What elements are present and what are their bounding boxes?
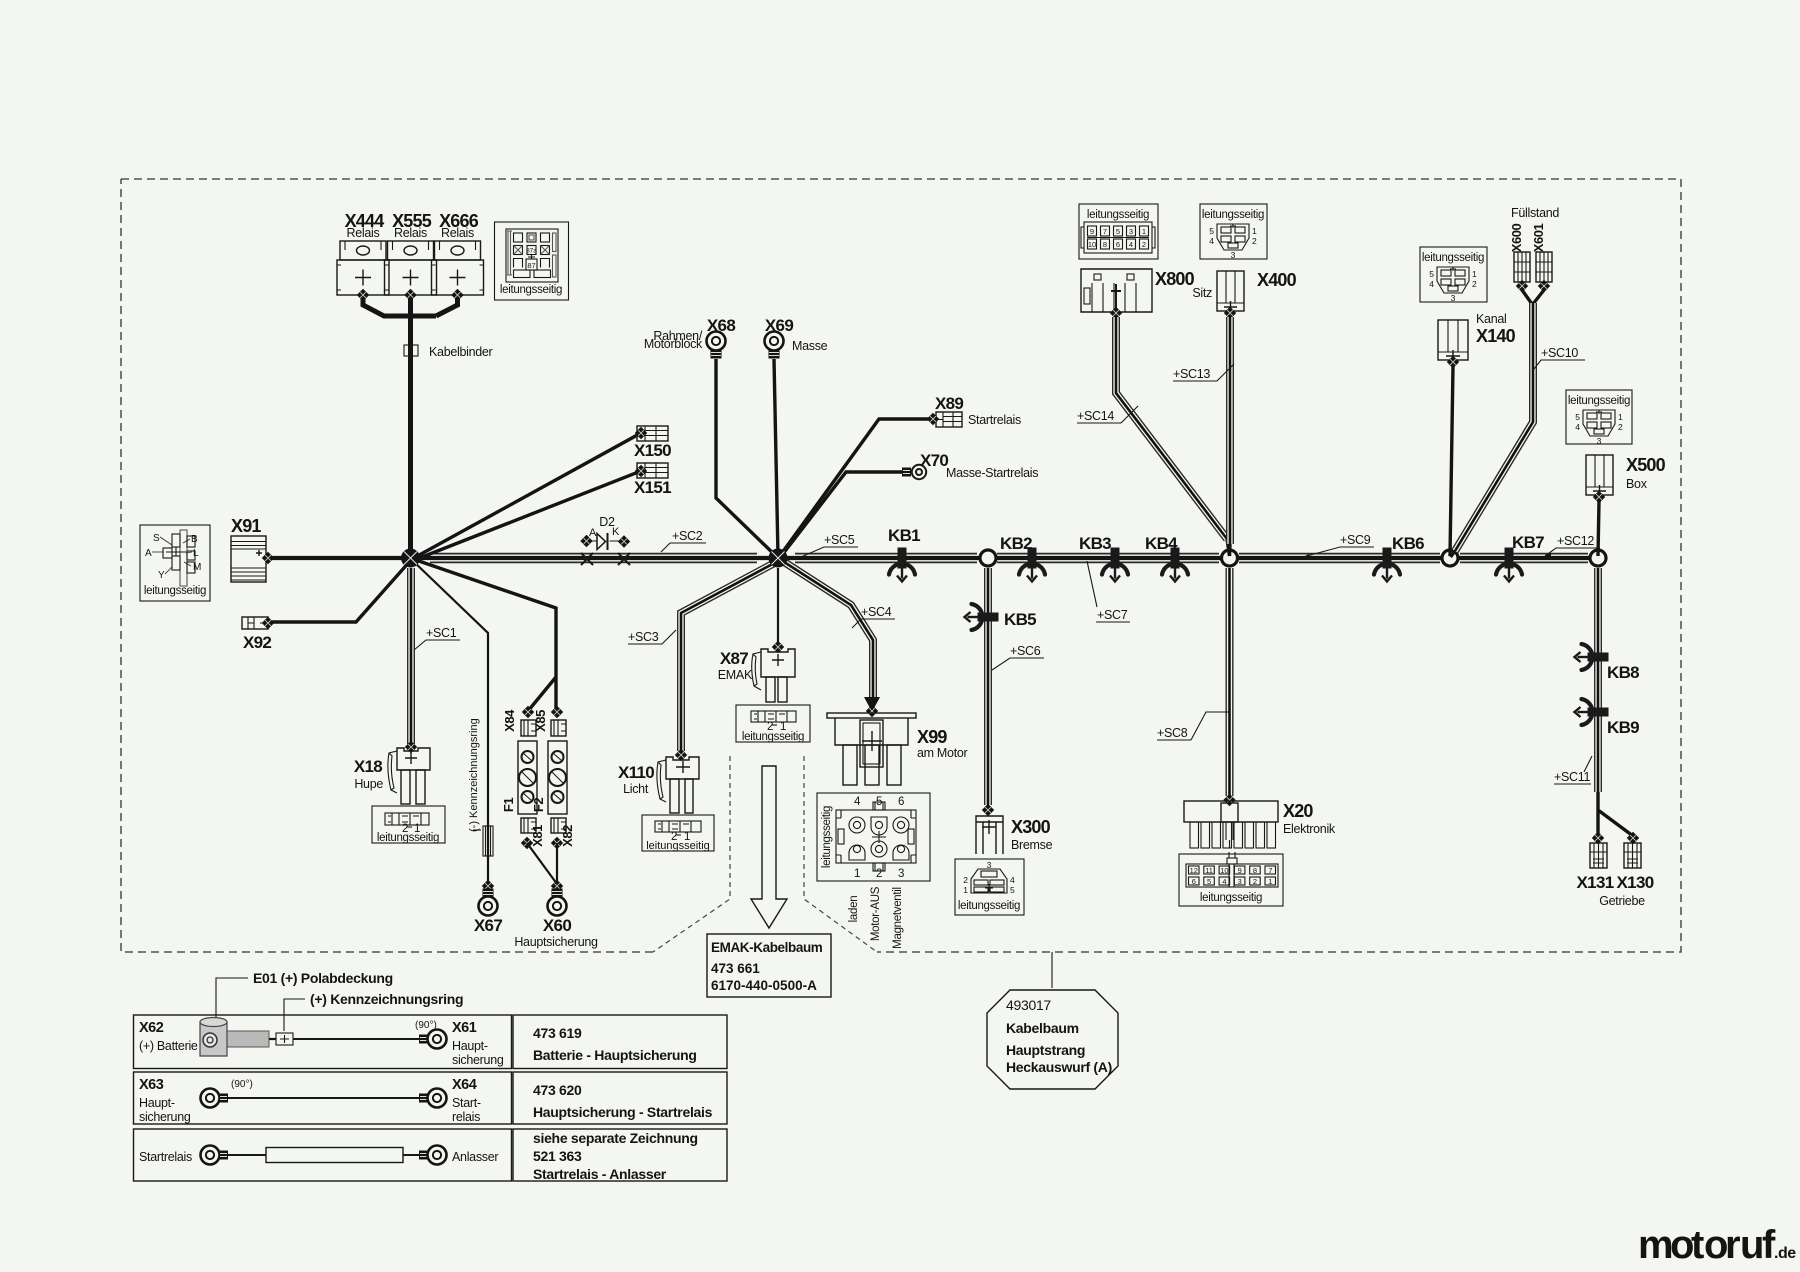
svg-text:Startrelais - Anlasser: Startrelais - Anlasser [533,1166,667,1182]
shield SC12 segment on bus [1460,553,1588,564]
svg-text:X300: X300 [1011,817,1051,837]
node X18 pin [405,741,417,753]
svg-text:10: 10 [1088,240,1096,249]
svg-text:473 619: 473 619 [533,1025,582,1041]
fuse column 1: connector X84 [522,706,534,718]
svg-text:8: 8 [1253,866,1257,875]
svg-text:Batterie - Hauptsicherung: Batterie - Hauptsicherung [533,1047,697,1063]
svg-text:.de: .de [1774,1245,1796,1262]
svg-text:K: K [612,526,620,538]
svg-text:X92: X92 [243,633,271,652]
svg-text:Kabelbaum: Kabelbaum [1006,1020,1079,1036]
connector X18 [354,748,430,804]
connector X92 [242,617,271,652]
connector X666 relay socket [432,211,484,295]
svg-text:8: 8 [1103,240,1107,249]
svg-text:+SC10: +SC10 [1541,346,1578,360]
svg-text:X89: X89 [935,394,963,413]
svg-text:+SC6: +SC6 [1010,644,1041,658]
svg-text:493017: 493017 [1006,997,1051,1013]
fuse column 2: connector X85 [551,706,563,718]
svg-text:2: 2 [1142,240,1146,249]
svg-text:+SC1: +SC1 [426,626,457,640]
connector X400 Sitz [1192,270,1296,313]
svg-text:KB3: KB3 [1079,534,1111,553]
connector X99 am Motor [827,713,968,785]
node X60 pin [551,880,563,892]
svg-text:(+) Kennzeichnungsring: (+) Kennzeichnungsring [310,991,463,1007]
node KB junction circle at x=988 [980,550,996,566]
svg-text:X600: X600 [1509,224,1524,253]
connector X300 Bremse [976,816,1053,854]
svg-text:Y: Y [158,570,165,581]
table row 2 right cell [513,1072,727,1124]
svg-text:X60: X60 [543,916,571,935]
svg-text:A: A [145,548,152,559]
connector X140 Kanal [1438,312,1516,362]
svg-text:Start-: Start- [452,1096,481,1110]
svg-text:X84: X84 [502,709,517,732]
node X20 pin [1223,794,1235,806]
connector X150 [634,426,671,460]
svg-text:Masse-Startrelais: Masse-Startrelais [946,466,1038,480]
svg-text:(+) Batterie: (+) Batterie [139,1039,198,1053]
svg-text:+SC7: +SC7 [1097,608,1128,622]
node KB junction circle at x=1229.5 [1222,550,1238,566]
ring terminal X67 [483,889,494,898]
svg-text:Hauptsicherung: Hauptsicherung [514,935,598,949]
svg-text:X601: X601 [1531,224,1546,253]
wire X89 to star2 [779,419,929,557]
relay leitungsseitig legend box [495,222,569,300]
svg-text:473 620: 473 620 [533,1082,582,1098]
node KB junction circle at x=1598 [1590,550,1606,566]
svg-text:(90°): (90°) [415,1020,437,1031]
svg-text:(-) Kennzeichnungsring: (-) Kennzeichnungsring [468,718,480,832]
svg-text:EMAK: EMAK [718,668,753,682]
svg-text:Relais: Relais [394,226,427,240]
svg-text:3: 3 [898,868,904,880]
node star1 [401,549,420,568]
svg-text:X62: X62 [139,1020,164,1036]
cable tie KB9 [1575,699,1609,725]
cable tie KB6 [1374,548,1400,582]
shield SC7 segment on bus [997,553,1219,564]
svg-text:Elektronik: Elektronik [1283,822,1336,836]
svg-text:X800: X800 [1155,269,1195,289]
svg-text:X85: X85 [533,710,548,732]
cable tie KB7 [1496,548,1522,582]
svg-text:1: 1 [854,868,860,880]
connector X20 Elektronik [1184,801,1336,848]
cable SC4 star2 to X99 [781,560,873,702]
node X91 pin [262,552,274,564]
cable tie KB1 [889,548,915,582]
svg-text:KB9: KB9 [1607,718,1639,737]
svg-text:X110: X110 [618,763,654,782]
node relay pin X666 [451,289,463,301]
wire star1 to X92 [269,560,411,622]
ignition switch leitungsseitig box [140,525,210,601]
node X87 pin [772,641,784,653]
svg-text:Hupe: Hupe [354,777,383,791]
table row 1 left cell [134,1015,512,1069]
svg-text:Magnetventil: Magnetventil [892,887,904,949]
wire with sleeve [228,1154,420,1156]
X99 leitungsseitig box [817,793,930,949]
svg-text:521 363: 521 363 [533,1148,582,1164]
fuse F1 [501,741,537,814]
svg-text:Heckauswurf (A): Heckauswurf (A) [1006,1059,1112,1075]
svg-text:1: 1 [1268,877,1272,886]
svg-text:2: 2 [1472,279,1477,289]
wire star1 to X150 [412,433,641,559]
svg-text:leitungsseitig: leitungsseitig [144,585,206,597]
svg-text:EMAK-Kabelbaum: EMAK-Kabelbaum [711,940,823,955]
connector X87 EMAK [718,649,795,702]
ring terminal Startrelais [139,1146,228,1165]
cable SC1 star1 to X18 [407,568,415,744]
connector X89 Startrelais [935,394,1021,427]
svg-text:am Motor: am Motor [917,746,968,760]
wire battery to X61 [293,1038,421,1040]
svg-text:leitungsseitig: leitungsseitig [1200,892,1262,904]
svg-text:5: 5 [876,796,882,808]
ring terminal Anlasser [419,1146,498,1165]
wire X140 to node5 [1450,366,1453,556]
svg-text:5: 5 [1429,269,1434,279]
svg-text:+SC11: +SC11 [1554,770,1590,784]
svg-text:4: 4 [1575,422,1580,432]
svg-text:X140: X140 [1476,326,1516,346]
svg-text:6: 6 [1116,240,1120,249]
svg-text:3: 3 [1597,436,1602,446]
wire star1 to X151 [412,471,641,561]
cable SC14 X800 to node [1116,317,1227,539]
svg-text:sicherung: sicherung [452,1053,504,1067]
shield SC2 segment on bus [430,553,757,564]
node KB junction circle at x=1450 [1442,550,1458,566]
cable SC13 X400 to node [1226,317,1234,544]
svg-text:X63: X63 [139,1077,164,1093]
svg-text:laden: laden [848,896,860,923]
svg-text:1: 1 [1252,226,1257,236]
connector X131 [1592,832,1604,844]
svg-text:X151: X151 [634,478,671,497]
cable SC3 star2 to X110 [681,560,780,751]
svg-text:+SC4: +SC4 [861,605,892,619]
svg-text:leitungsseitig: leitungsseitig [1202,209,1264,221]
ring terminal X60 Hauptsicherung [552,889,563,898]
svg-text:1: 1 [1618,412,1623,422]
svg-text:Sitz: Sitz [1192,286,1212,300]
X140 leitungsseitig box [1420,247,1487,303]
table row 1 right cell [513,1015,727,1069]
svg-text:leitungsseitig: leitungsseitig [958,900,1020,912]
svg-text:F2: F2 [531,798,546,812]
X110 leitungsseitig box [642,815,714,852]
svg-text:u: u [1740,1223,1764,1267]
X18 leitungsseitig box [372,806,445,844]
node X151 pin [635,465,647,477]
node X67 pin [482,880,494,892]
svg-text:F1: F1 [501,798,516,812]
node relay pin X555 [404,289,416,301]
svg-text:sicherung: sicherung [139,1110,191,1124]
svg-text:leitungsseitig: leitungsseitig [742,731,804,743]
shield SC9 segment on bus [1239,553,1440,564]
connector X500 Box [1586,455,1666,497]
493017 octagon label [987,952,1118,1089]
svg-text:X99: X99 [917,727,947,747]
cable SC8 node4 to X20 [1226,568,1234,796]
cable tie KB8 [1575,644,1609,670]
svg-text:Motor-AUS: Motor-AUS [870,886,882,941]
wire main bus [268,556,1598,560]
cable tie KB3 [1102,548,1128,582]
svg-text:473 661: 473 661 [711,961,760,976]
svg-text:m: m [1638,1223,1674,1267]
svg-text:X20: X20 [1283,801,1313,821]
wire star1 branch to fuse columns [413,559,556,711]
svg-text:r: r [1725,1223,1741,1267]
svg-text:KB8: KB8 [1607,663,1639,682]
svg-text:E01 (+) Polabdeckung: E01 (+) Polabdeckung [253,970,393,986]
svg-text:+SC9: +SC9 [1340,533,1371,547]
svg-text:2: 2 [963,875,968,885]
svg-text:+SC5: +SC5 [824,533,855,547]
svg-text:+SC13: +SC13 [1173,367,1210,381]
svg-text:7: 7 [1268,866,1272,875]
wire relay feed [363,297,458,558]
svg-text:leitungsseitig: leitungsseitig [1087,209,1149,221]
svg-text:Startrelais: Startrelais [139,1150,192,1164]
cable tie KB4 [1162,548,1188,582]
svg-text:Haupt-: Haupt- [452,1039,488,1053]
svg-text:Kanal: Kanal [1476,312,1506,326]
svg-text:X150: X150 [634,441,671,460]
svg-text:X64: X64 [452,1077,477,1093]
cable tie KB5 [965,604,999,630]
svg-text:+SC8: +SC8 [1157,726,1188,740]
wire X63 to X64 [228,1097,420,1099]
connector X110 Licht [618,757,699,813]
svg-text:leitungsseitig: leitungsseitig [646,840,710,852]
svg-text:X87: X87 [720,649,748,668]
svg-text:+SC14: +SC14 [1077,409,1114,423]
svg-text:KB1: KB1 [888,526,920,545]
svg-text:+SC12: +SC12 [1557,534,1594,548]
svg-text:Hauptstrang: Hauptstrang [1006,1042,1085,1058]
cable tie KB2 [1019,548,1045,582]
svg-text:6: 6 [898,796,904,808]
svg-text:t: t [1691,1223,1704,1267]
table row 3 left cell [134,1129,512,1181]
EMAK-Kabelbaum box [707,934,831,997]
svg-text:+SC2: +SC2 [672,529,703,543]
wire star2 to X87 [777,568,779,644]
EMAK region dashed funnel [653,756,877,952]
svg-text:87a: 87a [526,248,537,255]
svg-text:A: A [589,527,597,539]
svg-text:KB2: KB2 [1000,534,1032,553]
kabelbinder symbol [404,345,411,356]
svg-text:3: 3 [1231,250,1236,260]
Kennzeichnungsring sleeve symbol [483,826,493,856]
X800 leitungsseitig box [1079,204,1158,259]
svg-text:87: 87 [527,261,535,270]
svg-text:4: 4 [1010,875,1015,885]
ring terminal X64 [419,1077,481,1124]
svg-text:2: 2 [1618,422,1623,432]
cable SC11 node6 down [1594,568,1602,792]
svg-text:12: 12 [1190,866,1198,875]
svg-text:Anlasser: Anlasser [452,1150,498,1164]
node X150 pin [635,427,647,439]
svg-text:X131: X131 [1577,873,1614,892]
svg-text:6: 6 [1192,877,1196,886]
svg-text:2: 2 [1252,236,1257,246]
svg-text:Relais: Relais [441,226,474,240]
svg-text:4: 4 [1129,240,1133,249]
svg-text:1: 1 [1472,269,1477,279]
svg-text:1: 1 [1142,227,1146,236]
ring terminal X61 [415,1020,504,1067]
svg-text:(90°): (90°) [231,1079,253,1090]
svg-text:X70: X70 [920,451,948,470]
svg-text:leitungsseitig: leitungsseitig [377,832,439,844]
svg-text:2: 2 [876,868,882,880]
svg-text:4: 4 [854,796,861,808]
main dashed border frame [121,179,1681,952]
svg-text:X130: X130 [1617,873,1654,892]
svg-text:5: 5 [1010,885,1015,895]
svg-text:Startrelais: Startrelais [968,413,1021,427]
svg-text:X61: X61 [452,1020,477,1036]
svg-text:Bremse: Bremse [1011,838,1053,852]
cable SC10 to node5 [1455,303,1533,551]
connector X82 [551,818,575,847]
EMAK hollow arrow [751,766,787,928]
svg-text:2: 2 [1253,877,1257,886]
connector X81 [521,818,545,847]
svg-text:4: 4 [1429,279,1434,289]
svg-text:Motorblock: Motorblock [644,337,703,351]
X300 leitungsseitig box [955,859,1024,915]
wire X69 to star2 [774,359,778,556]
wire star1 branch to X67 ground [412,560,488,884]
svg-text:+SC3: +SC3 [628,630,659,644]
svg-text:leitungsseitig: leitungsseitig [1422,252,1484,264]
ring terminal X63 [139,1077,253,1124]
svg-text:KB6: KB6 [1392,534,1424,553]
X20 leitungsseitig box [1179,852,1283,906]
table row 2 left cell [134,1072,512,1124]
connector X555 relay socket [385,211,437,295]
node X110 pin [675,749,687,761]
svg-text:Licht: Licht [623,782,649,796]
wire X500 to node6 [1598,501,1599,556]
svg-text:Haupt-: Haupt- [139,1096,175,1110]
svg-text:Relais: Relais [347,226,380,240]
wire X68 to star2 [716,359,777,557]
svg-text:KB7: KB7 [1512,533,1544,552]
svg-text:Getriebe: Getriebe [1599,894,1645,908]
svg-text:1: 1 [963,885,968,895]
svg-text:relais: relais [452,1110,480,1124]
node relay pin X444 [357,289,369,301]
wire X600/X601 merge [1522,290,1544,304]
connector X91 [231,516,266,582]
wire fuse outputs to X60 [527,843,557,884]
fuse F2 [531,741,567,814]
X400 leitungsseitig box [1200,204,1267,260]
svg-text:Hauptsicherung - Startrelais: Hauptsicherung - Startrelais [533,1104,713,1120]
svg-text:3: 3 [1238,877,1242,886]
svg-text:Masse: Masse [792,339,828,353]
arrow into X99 [864,697,880,712]
Kennzeichnungsring inline symbol [276,1033,293,1045]
svg-text:Box: Box [1626,477,1648,491]
svg-text:6170-440-0500-A: 6170-440-0500-A [711,978,817,993]
node X300 pin [982,804,994,816]
svg-text:X400: X400 [1257,270,1297,290]
svg-text:7: 7 [1103,227,1107,236]
svg-text:3: 3 [1451,293,1456,303]
svg-text:leitungsseitig: leitungsseitig [821,806,833,868]
node star2 [769,549,788,568]
connector X800 [1081,269,1195,312]
connector X130 [1627,832,1639,844]
X87 leitungsseitig box [736,705,810,743]
svg-text:KB5: KB5 [1004,610,1036,629]
svg-text:siehe separate Zeichnung: siehe separate Zeichnung [533,1130,698,1146]
cable SC6 node3 to X300 [984,568,992,805]
table row 3 right cell [513,1129,727,1181]
battery terminal X62 graphic [139,1018,276,1057]
X500 leitungsseitig box [1566,390,1632,446]
svg-text:3: 3 [1129,227,1133,236]
svg-text:9: 9 [1238,866,1242,875]
svg-text:4: 4 [1222,877,1226,886]
svg-text:L: L [193,548,199,559]
svg-text:9: 9 [1090,227,1094,236]
svg-text:KB4: KB4 [1145,534,1178,553]
svg-text:Kabelbinder: Kabelbinder [429,345,493,359]
svg-text:M: M [193,562,201,573]
svg-text:11: 11 [1205,866,1213,875]
shield SC5 segment on bus [795,553,977,564]
svg-text:4: 4 [1209,236,1214,246]
svg-text:X18: X18 [354,757,382,776]
node X92 pin [262,617,274,629]
connector X444 relay socket [337,211,389,295]
svg-text:S: S [153,533,160,544]
wire X70 to star2 [779,472,903,559]
svg-text:5: 5 [1207,877,1211,886]
svg-text:5: 5 [1209,226,1214,236]
connector X151 [634,463,671,497]
svg-text:leitungsseitig: leitungsseitig [1568,395,1630,407]
svg-text:5: 5 [1575,412,1580,422]
svg-text:X67: X67 [474,916,502,935]
svg-text:10: 10 [1220,866,1228,875]
wire split to X131/X130 [1598,792,1633,836]
svg-text:Füllstand: Füllstand [1511,206,1559,220]
svg-text:5: 5 [1116,227,1120,236]
svg-text:leitungsseitig: leitungsseitig [500,284,562,296]
ring terminal X70 Masse-Startrelais [902,451,1038,480]
